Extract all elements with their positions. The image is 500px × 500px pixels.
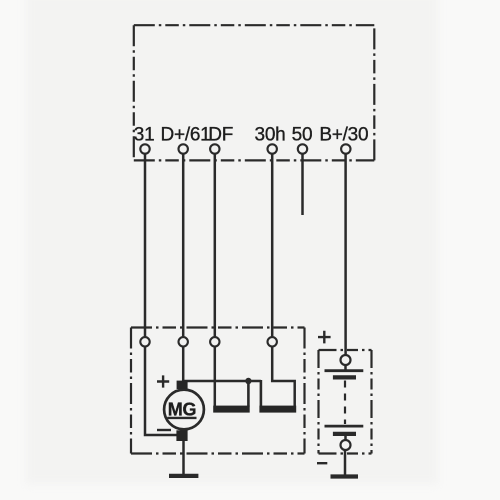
MG minus terminal [176, 430, 187, 441]
svg-text:31: 31 [134, 125, 155, 146]
battery minus label [317, 462, 327, 464]
node 31 (generator box) [140, 337, 149, 346]
terminal B+/30 [341, 144, 350, 153]
svg-text:D+/61: D+/61 [161, 125, 211, 146]
motor-generator MG body [164, 390, 204, 430]
wire 30h to resistor R2 [272, 347, 295, 407]
wire 31 to MG minus [145, 347, 180, 436]
ground (MG) [169, 474, 198, 478]
terminal DF [210, 144, 219, 153]
wire 31 vertical [144, 154, 147, 337]
svg-text:DF: DF [208, 125, 233, 146]
battery box (dash-dot) [319, 350, 372, 454]
battery dashed link [344, 381, 346, 425]
MG minus label [157, 429, 171, 431]
battery plus label [318, 331, 331, 344]
wire R1 right leg [247, 380, 250, 407]
node D+/61 (generator box) [179, 337, 188, 346]
MG underline [167, 417, 196, 419]
regulator box U1 (dash-dot) [134, 25, 374, 160]
terminal 50 [298, 144, 307, 153]
wire MG plus bus [184, 380, 261, 383]
wire D+/61 to MG plus [182, 347, 185, 383]
wire 50 stub [301, 154, 304, 215]
wire battery bottom link [344, 436, 347, 440]
terminal 31 [140, 144, 149, 153]
battery cell 2 long plate [325, 425, 364, 428]
battery cell 2 short plate [333, 432, 356, 436]
svg-text:50: 50 [292, 125, 313, 146]
wire battery to ground [344, 450, 347, 475]
battery cell 1 long plate [325, 369, 364, 372]
wire DF to resistor R1 [214, 347, 217, 407]
battery node bottom [341, 440, 351, 450]
junction dot A [245, 378, 251, 384]
node 30h (generator box) [268, 337, 277, 346]
wire D+/61 vertical [182, 154, 185, 337]
wire 30h vertical [271, 154, 274, 337]
battery cell 1 short plate [333, 375, 356, 379]
ground (battery) [331, 474, 359, 478]
resistor R2 bar [259, 406, 296, 413]
svg-text:B+/30: B+/30 [319, 125, 368, 146]
battery node top [341, 355, 351, 365]
wire DF vertical [214, 154, 217, 337]
node DF (generator box) [210, 337, 219, 346]
svg-text:30h: 30h [255, 125, 286, 146]
svg-text:MG: MG [168, 399, 197, 419]
MG plus label [157, 375, 169, 387]
wire battery top [344, 365, 347, 370]
wire MG to ground [182, 441, 185, 474]
resistor R1 bar [213, 406, 250, 413]
generator box (dash-dot) [131, 328, 305, 454]
terminal 30h [268, 144, 277, 153]
terminal D+/61 [179, 144, 188, 153]
wire B+/30 vertical [344, 154, 347, 355]
MG plus terminal [177, 381, 188, 389]
wire R2 left leg [260, 380, 263, 407]
